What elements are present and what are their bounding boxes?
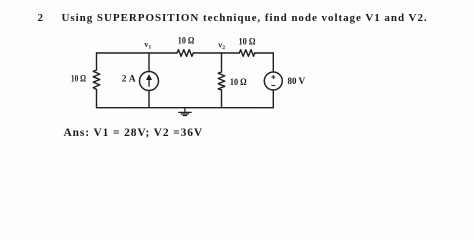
- wire bottom rail: [97, 107, 274, 109]
- svg-text:v1: v1: [144, 40, 151, 51]
- wire right branch top: [272, 53, 274, 72]
- voltage source polarity minus: [271, 85, 275, 87]
- svg-text:80: 80: [288, 77, 297, 87]
- svg-text:10 Ω: 10 Ω: [178, 36, 195, 46]
- svg-text:V: V: [298, 77, 305, 87]
- wire top rail left segment (V1 node run): [97, 52, 178, 54]
- svg-text:v2: v2: [218, 40, 225, 51]
- current source arrow: [146, 74, 152, 87]
- ground symbol: [179, 108, 191, 116]
- voltage source polarity plus: [271, 75, 275, 86]
- resistor R1 10ohm horizontal between V1 and V2: [177, 50, 193, 57]
- wire left branch bottom: [96, 90, 98, 108]
- wire left branch top: [96, 53, 98, 70]
- wire current source branch top: [148, 53, 150, 72]
- wire middle branch top: [221, 53, 223, 72]
- resistor R2 10ohm horizontal right of V2: [239, 50, 254, 57]
- resistor R_left 10ohm vertical: [93, 70, 100, 90]
- wire top rail middle segment (V2 node run): [193, 52, 239, 54]
- svg-text:10 Ω: 10 Ω: [230, 77, 247, 87]
- svg-text:2: 2: [122, 74, 127, 84]
- current source I1 2A circle: [140, 72, 159, 91]
- problem title: [38, 13, 44, 24]
- wire top rail right segment: [255, 52, 274, 54]
- answer text: [64, 128, 203, 140]
- svg-text:10 Ω: 10 Ω: [239, 36, 256, 46]
- svg-text:A: A: [129, 74, 136, 84]
- wire right branch bottom: [272, 90, 274, 108]
- voltage source V80 circle: [264, 72, 282, 90]
- resistor R_mid 10ohm vertical: [218, 72, 225, 90]
- wire middle branch bottom: [221, 90, 223, 108]
- svg-text:10 Ω: 10 Ω: [71, 73, 86, 83]
- wire current source branch bottom: [148, 91, 150, 108]
